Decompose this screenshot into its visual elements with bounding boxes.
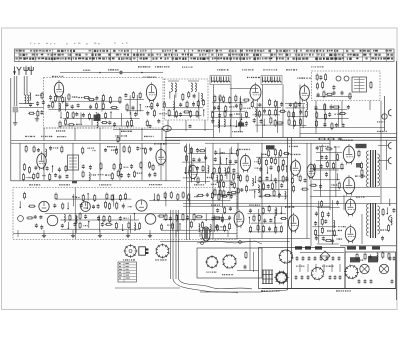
capacitor C40 (289, 103, 292, 107)
value label (76, 197, 80, 198)
resistor R55 (240, 120, 242, 128)
resistor R95 (144, 147, 146, 155)
junction (220, 163, 221, 164)
wire (253, 189, 289, 191)
capacitor C117 (322, 237, 325, 241)
junction (134, 213, 135, 214)
inductor L16 (306, 102, 307, 110)
capacitor C90 (285, 176, 288, 181)
terminal label block (359, 246, 366, 249)
resistor R20 (105, 112, 107, 120)
pickup socket (205, 255, 218, 268)
wire (211, 110, 246, 112)
wire (274, 209, 276, 232)
tube type label (297, 78, 311, 79)
resistor R9 (102, 94, 104, 102)
vacuum tube V1 (54, 80, 63, 99)
wire stub (331, 264, 333, 272)
wire (247, 213, 285, 215)
resistor R213 (177, 193, 179, 201)
capacitor C127 (230, 194, 233, 199)
junction (166, 129, 168, 131)
wire (380, 101, 382, 204)
resistor R221 (69, 214, 71, 221)
resistor R69 (305, 110, 307, 118)
inductor L12 (173, 102, 174, 110)
wire (312, 169, 339, 171)
capacitor C60 (34, 166, 37, 171)
wire (139, 105, 141, 111)
tube type label (52, 76, 63, 77)
junction (60, 117, 61, 118)
wire (187, 181, 210, 183)
wire (315, 101, 317, 134)
rectifier tube socket (279, 249, 294, 264)
capacitor C63 (54, 173, 57, 177)
cable bundle wire (178, 210, 180, 279)
wire (213, 163, 235, 165)
capacitor C48 (315, 105, 318, 110)
wire (237, 270, 259, 272)
resistor R187 (361, 169, 363, 177)
chassis mid wire (45, 213, 235, 215)
junction (175, 91, 176, 92)
wire (369, 101, 371, 111)
vacuum tube V6 (156, 147, 166, 166)
resistor R146 (259, 176, 261, 183)
resistor R161 (221, 216, 223, 223)
wire (203, 110, 205, 116)
resistor R56 (251, 101, 253, 109)
value label (159, 113, 166, 114)
resistor R145 (282, 164, 284, 172)
capacitor C38 (253, 118, 256, 123)
capacitor C118 (331, 238, 334, 243)
wire (315, 109, 348, 111)
wire (378, 145, 389, 147)
wire (229, 149, 231, 200)
resistor R128 (223, 181, 225, 189)
long bus wire (183, 203, 397, 205)
wire (72, 230, 74, 237)
ground (98, 234, 102, 238)
wire (216, 172, 240, 174)
antenna feeder wire (13, 76, 15, 106)
resistor R191 (315, 229, 317, 237)
junction (88, 221, 89, 222)
capacitor C116 (315, 236, 318, 241)
capacitor C83 (237, 174, 240, 179)
resistor R78 (326, 93, 334, 95)
wire (267, 167, 269, 173)
wire (176, 215, 178, 232)
wire (222, 193, 224, 208)
wire (175, 230, 177, 237)
wire (300, 127, 385, 129)
switch contact (201, 242, 204, 245)
resistor R243 (382, 251, 384, 259)
capacitor C108 (320, 164, 323, 169)
wire (153, 193, 155, 199)
inductor L21 (216, 175, 217, 183)
IF transformer T1 shield (dashed) (165, 79, 209, 120)
terminal label block (295, 246, 302, 249)
wire (19, 103, 34, 105)
wire (255, 124, 283, 126)
resistor R202 (106, 193, 108, 201)
wire (343, 195, 345, 210)
capacitor C143 (296, 256, 299, 261)
resistor R48 (235, 95, 237, 103)
crystal filter module (68, 155, 79, 170)
resistor R140 (265, 159, 267, 167)
capacitor C141 (215, 224, 218, 229)
resistor R178 (327, 138, 335, 140)
capacitor C100 (263, 219, 266, 224)
wire (56, 198, 131, 200)
tuning eye housing (352, 77, 367, 92)
wire (386, 140, 388, 170)
capacitor C6 (95, 96, 98, 101)
wire (61, 228, 139, 230)
inductor L11 (201, 93, 202, 101)
wire (110, 112, 112, 118)
value label (229, 106, 234, 107)
wire (198, 92, 200, 119)
capacitor C8 (65, 102, 68, 107)
wire (129, 95, 131, 114)
resistor R218 (218, 193, 220, 201)
wire (227, 230, 229, 237)
lamp (344, 76, 349, 81)
wire (182, 161, 205, 163)
resistor R107 (149, 161, 151, 169)
resistor R10 (109, 96, 111, 104)
capacitor C105 (316, 146, 319, 151)
resistor R198 (28, 205, 36, 207)
legend table frame (118, 262, 137, 282)
resistor R231 (165, 213, 167, 221)
label (155, 66, 170, 67)
resistor R233 (182, 213, 184, 221)
antenna matching transformer (13, 107, 18, 112)
terminal label block (315, 246, 322, 249)
power supply chassis box (259, 248, 346, 289)
resistor R205 (124, 193, 126, 201)
motor socket (222, 254, 236, 268)
wire (230, 119, 232, 125)
resistor R42 (153, 109, 155, 117)
capacitor C65 (66, 174, 69, 178)
wire (67, 222, 69, 228)
tube socket bottom view (155, 244, 169, 259)
capacitor C81 (234, 160, 237, 164)
tube socket circle (145, 214, 156, 225)
cable S-bend to power unit (173, 279, 238, 293)
resistor R77 (323, 90, 325, 98)
tube type label (356, 197, 365, 198)
wire (384, 96, 386, 131)
capacitor C15 (108, 121, 111, 125)
resistor R59 (258, 110, 260, 118)
capacitor C126 (206, 193, 209, 197)
capacitor C115 (324, 219, 327, 224)
resistor R52 (212, 111, 214, 119)
resistor R157 (293, 185, 295, 193)
label (355, 176, 365, 177)
resistor R16 (67, 111, 69, 119)
resistor R38 (190, 110, 192, 118)
wire (316, 117, 349, 119)
wire (99, 128, 101, 141)
record changer unit box (197, 248, 262, 278)
resistor R214 (182, 191, 184, 199)
resistor R4 (54, 95, 56, 103)
junction (203, 109, 204, 110)
junction (87, 193, 88, 194)
resistor R227 (115, 222, 117, 230)
output transformer core (371, 150, 376, 187)
inductor L26 (333, 220, 334, 228)
resistor R232 (176, 214, 178, 222)
wire (61, 125, 135, 127)
wire (72, 194, 74, 206)
resistor R130 (214, 188, 216, 196)
capacitor C151 (295, 275, 298, 280)
wire (317, 243, 339, 245)
resistor R194 (324, 239, 332, 241)
resistor R222 (79, 212, 81, 220)
resistor R66 (295, 101, 297, 108)
capacitor C75 (198, 158, 201, 163)
heading marks above table (30, 43, 128, 45)
wire (141, 143, 143, 180)
wire (74, 188, 76, 240)
wire (122, 224, 124, 230)
wire (248, 218, 250, 224)
value label (380, 229, 387, 230)
inductor L13 (218, 120, 219, 128)
wire stub (307, 264, 309, 272)
resistor R181 (313, 163, 315, 171)
junction (140, 104, 141, 105)
wire (338, 105, 340, 127)
long wire (291, 262, 293, 289)
wire (205, 214, 207, 220)
capacitor C104 (338, 138, 342, 141)
variable capacitor rotor (163, 126, 172, 132)
wire (274, 217, 276, 223)
inductor L25 (276, 208, 277, 216)
capacitor C101 (269, 218, 272, 222)
value label (42, 175, 45, 176)
label (354, 260, 363, 261)
resistor R183 (333, 162, 335, 170)
junction (271, 180, 272, 181)
capacitor C74 (192, 158, 195, 162)
resistor R180 (336, 153, 338, 161)
capacitor C113 (327, 212, 330, 217)
label (222, 274, 233, 275)
resistor R170 (250, 226, 252, 233)
resistor R230 (157, 215, 165, 217)
junction (241, 119, 242, 120)
capacitor C43 (319, 75, 322, 80)
value label (137, 173, 143, 174)
resistor R57 (269, 99, 271, 107)
capacitor C37 (263, 109, 266, 114)
resistor R163 (224, 224, 226, 232)
capacitor C50 (347, 105, 350, 110)
wire (60, 111, 62, 117)
vacuum tube V13 (343, 175, 354, 196)
wire (99, 215, 101, 232)
resistor R99 (22, 173, 24, 181)
capacitor C93 (278, 193, 281, 198)
resistor R239 (201, 221, 203, 229)
wire (300, 133, 397, 135)
capacitor C49 (330, 104, 333, 109)
capacitor C20 (179, 103, 182, 107)
capacitor C77 (196, 166, 199, 170)
inductor L29 (76, 216, 77, 224)
wire (226, 173, 228, 179)
wire (160, 143, 162, 180)
wire (320, 146, 322, 196)
resistor R188 (321, 200, 323, 208)
wire (190, 148, 192, 182)
resistor R173 (275, 226, 277, 234)
wire (290, 116, 307, 118)
vacuum tube V11 (288, 213, 298, 233)
ground (148, 234, 152, 238)
vacuum tube V3 (250, 83, 261, 102)
inductor L15 (255, 109, 256, 117)
value label (111, 150, 117, 151)
value label (36, 95, 42, 96)
resistor R92 (116, 147, 118, 154)
wire (173, 95, 175, 118)
wire (219, 148, 221, 200)
wire (315, 235, 337, 237)
wire (285, 166, 287, 172)
wire (212, 143, 214, 238)
capacitor C84 (230, 181, 233, 186)
wire (23, 76, 25, 95)
wire (262, 85, 264, 138)
resistor R234 (193, 213, 195, 221)
resistor R11 (119, 96, 121, 104)
label (144, 136, 154, 137)
resistor R105 (120, 163, 122, 171)
resistor R164 (228, 222, 230, 230)
label (249, 205, 260, 206)
junction (67, 208, 68, 209)
pilot lamp (382, 114, 387, 119)
wire (258, 195, 288, 197)
wire (49, 108, 120, 110)
wire (215, 153, 237, 155)
wire (306, 143, 308, 238)
label B5 (266, 145, 275, 149)
resistor R97 (28, 166, 30, 174)
junction (99, 72, 101, 74)
wire (161, 128, 163, 141)
label (319, 146, 329, 147)
junction (249, 217, 250, 218)
tube type label (247, 77, 260, 78)
resistor R75 (316, 82, 318, 89)
wire (226, 159, 228, 165)
power transformer laminations (262, 270, 273, 284)
wire (254, 192, 256, 198)
wire (168, 80, 179, 82)
resistor R139 (258, 157, 260, 165)
resistor R91 (82, 147, 84, 155)
inductor L20 (225, 168, 226, 176)
vacuum tube (1st AF) (307, 162, 315, 179)
resistor R123 (228, 166, 230, 173)
wire (91, 119, 93, 125)
junction (259, 196, 260, 197)
capacitor C71 (148, 173, 151, 178)
resistor block (350, 257, 360, 262)
value label (128, 206, 132, 207)
junction (286, 165, 287, 166)
parts list table row line (15, 52, 395, 54)
magic eye shield box (dashed) (312, 71, 381, 101)
label (29, 184, 40, 185)
capacitor C66 (82, 164, 85, 169)
value label (194, 196, 198, 197)
label (182, 67, 193, 68)
resistor R122 (218, 166, 220, 174)
wire (335, 147, 337, 197)
terminal label block (305, 246, 311, 249)
capacitor C68 (130, 164, 133, 169)
resistor R111 (117, 169, 119, 177)
resistor R121 (213, 167, 215, 175)
capacitor C22 (179, 112, 182, 117)
resistor R79 (370, 81, 372, 89)
wire (215, 194, 236, 196)
capacitor C72 (154, 172, 157, 177)
resistor R5 (62, 96, 64, 103)
capacitor C46 (333, 91, 336, 96)
value label (76, 124, 82, 125)
resistor (top) (117, 136, 119, 143)
capacitor C109 (325, 172, 328, 177)
resistor R208 (108, 202, 110, 210)
wire (43, 143, 45, 180)
wire (52, 166, 54, 172)
wire (165, 193, 167, 206)
resistor R176 (360, 162, 362, 170)
resistor R195 (382, 208, 384, 216)
label (206, 272, 216, 273)
capacitor C144 (302, 256, 305, 261)
capacitor C1 (29, 103, 32, 107)
wire (72, 143, 74, 180)
label (232, 131, 243, 132)
resistor R167 (253, 215, 255, 222)
wire (204, 120, 206, 131)
wire (389, 199, 391, 205)
resistor R61 (275, 108, 277, 116)
label OSC (149, 184, 162, 185)
resistor R162 (217, 224, 219, 231)
label (286, 69, 297, 70)
